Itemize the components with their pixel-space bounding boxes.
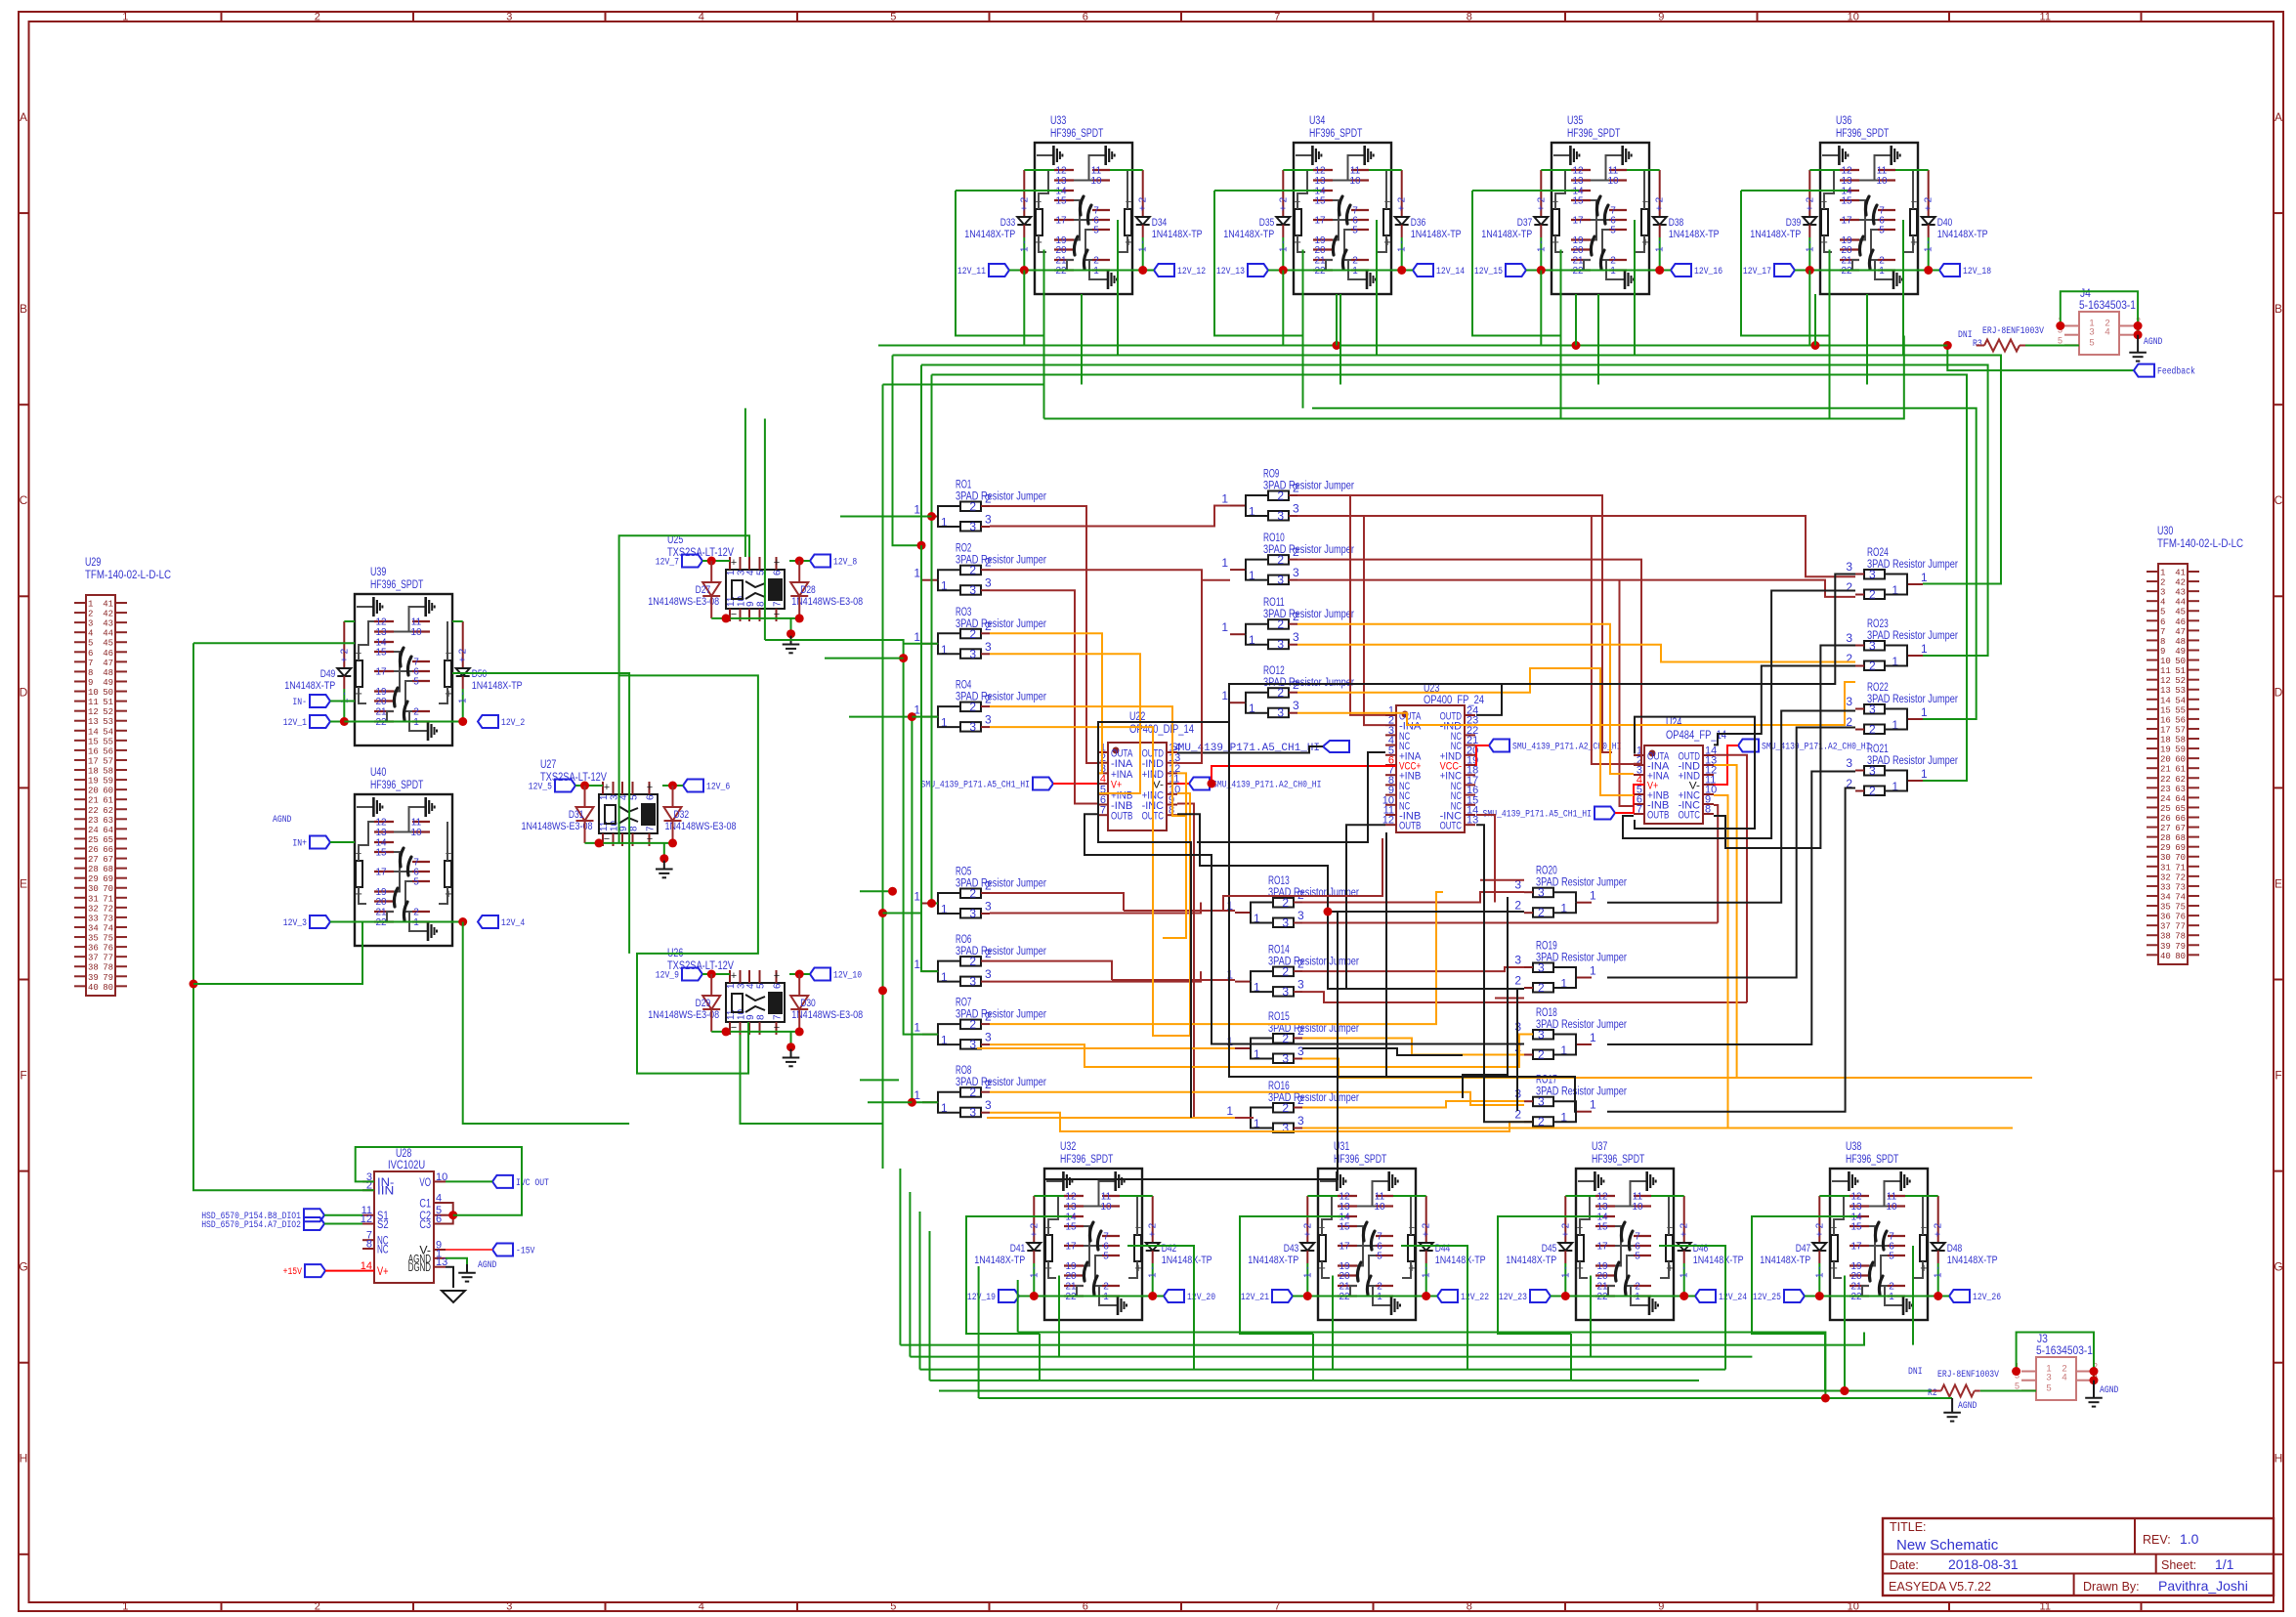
svg-text:12: 12 [1065,1192,1077,1203]
svg-text:16: 16 [2160,715,2171,725]
svg-text:47: 47 [2175,627,2186,637]
svg-text:1 -: 1 - [1934,1266,1944,1278]
svg-text:1: 1 [1921,705,1928,719]
wire relay p21 drop x1588 [1597,294,1599,385]
svg-text:RO18: RO18 [1536,1007,1557,1019]
svg-text:15: 15 [1596,1222,1608,1233]
svg-text:RO20: RO20 [1536,866,1557,877]
port 12V_4 [478,915,498,928]
port 12V_10 [810,968,830,981]
svg-text:39: 39 [2160,942,2171,952]
svg-text:1 -: 1 - [1679,1266,1690,1278]
wire trunk L6 [1044,336,1904,419]
svg-text:3: 3 [969,647,976,660]
svg-text:HF396_SPDT: HF396_SPDT [1846,1154,1898,1166]
wire U24 r12 drop [1714,765,1737,1078]
svg-text:3: 3 [1846,631,1852,645]
svg-text:28: 28 [2160,833,2171,843]
svg-text:13: 13 [1055,176,1067,187]
svg-text:D39: D39 [1786,217,1802,229]
svg-text:6: 6 [773,570,784,575]
wire trunk T1 [1018,1333,1826,1399]
svg-text:AGND: AGND [273,815,291,826]
svg-text:F: F [2275,1069,2281,1083]
wire 12V_19 row [1034,1296,1152,1298]
svg-text:2: 2 [969,1018,976,1032]
svg-text:TFM-140-02-L-D-LC: TFM-140-02-L-D-LC [85,570,171,581]
wire relay Dcol drop [1023,271,1025,346]
svg-text:21: 21 [88,796,99,806]
wire 12V_15 row [1541,270,1659,272]
wire relay pin20 drop x1059 [1043,250,1045,395]
port 12V_21 [1272,1290,1293,1302]
wire trunk L1 [878,345,1947,347]
svg-text:1N4148WS-E3-08: 1N4148WS-E3-08 [648,596,719,608]
wire U22 p12 drop [1163,773,1186,938]
svg-text:1: 1 [914,957,920,971]
svg-text:61: 61 [2175,765,2186,775]
wire relay pin14 feed x1588 [1472,190,1579,191]
wire U24 r10 drop [1714,795,1728,1128]
svg-text:U40: U40 [370,767,386,779]
wire RO11 p3 [1297,645,1855,662]
svg-text:43: 43 [2175,588,2186,598]
svg-text:D36: D36 [1411,217,1426,229]
svg-text:3: 3 [1846,695,1852,708]
svg-text:11: 11 [1633,1192,1643,1203]
svg-text:NC: NC [377,1245,389,1256]
svg-text:RO10: RO10 [1263,532,1285,544]
svg-text:2: 2 [1869,588,1876,602]
svg-text:17: 17 [1596,1242,1608,1253]
svg-text:12V_23: 12V_23 [1499,1293,1527,1303]
svg-text:4: 4 [2105,327,2109,338]
wire relay pin6 drop x1324 [1376,220,1378,356]
svg-text:U30: U30 [2157,526,2173,537]
wire brelay pin6 drop x1349 [1401,1246,1467,1370]
wire RO14 p3 [1302,992,1747,1002]
port 12V_24 [1695,1290,1716,1302]
wire black v1369 [1044,912,1338,1179]
svg-text:3: 3 [1282,1052,1289,1066]
svg-text:1N4148X-TP: 1N4148X-TP [1152,229,1203,240]
svg-text:D43: D43 [1284,1243,1299,1255]
svg-text:69: 69 [103,874,113,884]
svg-text:3: 3 [985,713,992,727]
wire RO10 p3 [1297,580,1855,597]
svg-text:H: H [2275,1452,2283,1466]
wire U23 feed2 [1364,516,1385,725]
svg-text:2: 2 [1869,723,1876,737]
wire RO3 feed [904,643,938,645]
wire U22 p9 web [1177,804,1254,1119]
svg-text:2: 2 [969,627,976,641]
wire U33 loop ext [1043,336,1045,419]
svg-text:+ 2: + 2 [1148,1222,1159,1237]
svg-text:5: 5 [413,677,419,688]
svg-text:2: 2 [2160,578,2165,588]
svg-text:1: 1 [726,570,737,575]
svg-text:2: 2 [1538,906,1545,919]
svg-text:2: 2 [1103,1282,1109,1293]
svg-text:1N4148X-TP: 1N4148X-TP [1435,1255,1486,1266]
wire V+ U22 [1053,783,1097,785]
wire brelay pin6 drop x1613 [1659,1246,1725,1370]
svg-text:D49: D49 [320,668,336,680]
svg-text:17: 17 [1339,1242,1350,1253]
svg-text:7: 7 [773,1014,784,1020]
svg-text:1N4148X-TP: 1N4148X-TP [964,229,1015,240]
port SMU A5 at U24 [1594,807,1615,820]
port 12V_18 [1939,264,1960,277]
svg-text:60: 60 [103,787,113,796]
svg-text:38: 38 [88,963,99,973]
svg-text:REV:: REV: [2143,1533,2171,1547]
diode D46 [1683,1196,1685,1243]
wire relay pin6 drop x1059 [1117,220,1119,356]
wire U23 r19 drop [1476,815,1495,903]
svg-text:21: 21 [1850,1282,1862,1293]
wire brelay pin20 drop x1349 [1332,1276,1334,1370]
wire U26 via [741,1035,883,1124]
svg-text:1 -: 1 - [1397,240,1408,252]
wire VO [446,1180,492,1182]
diode D38 [1659,170,1661,217]
svg-text:+: + [647,782,653,793]
svg-text:12V_11: 12V_11 [957,267,986,277]
wire relay pin20 drop x1588 [1560,250,1562,336]
wire RO9 p2 [1297,495,1612,752]
svg-text:15: 15 [1055,196,1067,207]
svg-text:12: 12 [1596,1192,1608,1203]
svg-text:3: 3 [1297,1044,1304,1058]
wire U24 r9 drop [1714,805,1718,923]
wire relay pin12 hook [1283,169,1313,171]
svg-text:3: 3 [1282,985,1289,999]
wire RO15 p3 [1302,1059,2032,1079]
svg-text:2: 2 [985,879,992,893]
svg-text:2: 2 [1297,1093,1304,1107]
svg-text:15: 15 [88,737,99,746]
svg-text:17: 17 [88,756,99,766]
svg-text:IIN: IIN [377,1186,394,1198]
svg-text:4: 4 [745,983,756,989]
ground T6 AGND [1951,1404,1953,1413]
resistor R3 [1977,345,1984,347]
svg-text:1 -: 1 - [1278,240,1289,252]
wire D28 stub [798,561,800,582]
wire D27 stub [710,561,712,582]
svg-text:79: 79 [103,973,113,983]
svg-text:EASYEDA V5.7.22: EASYEDA V5.7.22 [1889,1580,1991,1594]
svg-text:ERJ-8ENF1003V: ERJ-8ENF1003V [1982,326,2044,337]
wire relay pin6 drop x1863 [1902,220,1904,356]
svg-text:Pavithra_Joshi: Pavithra_Joshi [2158,1578,2248,1594]
wire RO5 feed left [860,890,893,892]
svg-text:17: 17 [375,667,387,678]
wire RO2 p3 [990,590,1097,803]
junction RO4 RO8 [908,712,916,721]
wire relay pin12 hook [1809,169,1840,171]
diode D47 [1818,1196,1820,1243]
svg-text:3: 3 [985,513,992,527]
svg-text:2: 2 [1277,553,1284,567]
wire relay p21 drop x1059 [1081,294,1083,385]
svg-text:+15V: +15V [283,1267,302,1278]
wire RO7 p3 [990,1035,1533,1068]
svg-text:11: 11 [1608,166,1619,177]
svg-text:U27: U27 [540,759,556,771]
wire U34 stub drop [1336,294,1338,346]
wire relay pin11 hook [1651,1195,1684,1197]
svg-text:E: E [20,876,27,890]
svg-text:10: 10 [1876,176,1888,187]
wire RO17 out [1607,788,1855,1112]
svg-text:A: A [2275,110,2282,124]
junction [1020,266,1029,275]
svg-text:2: 2 [1293,482,1299,495]
wire brelay loop x1349 [1240,1216,1345,1334]
port 12V_7 [682,555,702,568]
svg-text:1: 1 [1590,1098,1596,1112]
svg-text:73: 73 [103,914,113,923]
svg-text:15: 15 [375,648,387,659]
svg-text:C1: C1 [419,1199,431,1211]
svg-text:HF396_SPDT: HF396_SPDT [370,579,423,591]
port 12V_23 [1530,1290,1551,1302]
svg-text:1N4148X-TP: 1N4148X-TP [284,680,335,692]
svg-text:D33: D33 [1000,217,1016,229]
svg-text:12: 12 [375,818,387,829]
svg-text:60: 60 [2175,755,2186,765]
wire RO16 p3 [1302,1128,2013,1129]
ground U26 [790,1049,792,1058]
diode D31 [576,807,594,821]
wire U40 port row [355,921,463,923]
svg-text:5: 5 [2160,608,2165,617]
svg-text:U29: U29 [85,557,101,569]
svg-text:1N4148X-TP: 1N4148X-TP [1223,229,1274,240]
svg-text:4: 4 [699,1601,704,1613]
wire RO12 p2 [1297,668,1634,795]
svg-text:2: 2 [1277,489,1284,503]
svg-text:1/1: 1/1 [2215,1556,2234,1572]
svg-text:1N4148X-TP: 1N4148X-TP [1947,1255,1998,1266]
wire U25 via1 [744,408,746,557]
svg-text:16: 16 [88,746,99,756]
svg-text:71: 71 [2175,863,2186,872]
wire drop2 x1001 [978,1266,980,1398]
svg-text:32: 32 [88,904,99,914]
junction T5 [1840,1386,1849,1395]
svg-text:5: 5 [1093,226,1099,236]
svg-text:J3: J3 [2037,1334,2048,1345]
title block [1883,1518,2274,1596]
wire U24 outb [1623,591,1855,839]
svg-text:13: 13 [375,627,387,638]
wire RO7 left [860,1079,899,1081]
svg-text:2: 2 [1293,678,1299,692]
svg-text:12: 12 [2160,676,2171,686]
wire trunk T4b [930,1380,1700,1382]
diode D36 [1401,170,1403,217]
svg-text:RO2: RO2 [956,543,971,555]
diode D42 [1152,1196,1154,1243]
wire U25 pin4 hook [619,535,749,843]
svg-text:3: 3 [1282,916,1289,930]
svg-text:D45: D45 [1542,1243,1557,1255]
svg-text:26: 26 [2160,814,2171,824]
svg-text:1N4148WS-E3-08: 1N4148WS-E3-08 [522,821,593,832]
svg-text:56: 56 [2175,715,2186,725]
svg-text:DGND: DGND [408,1262,431,1274]
svg-text:+ 2: + 2 [1302,1222,1313,1237]
svg-text:12V_21: 12V_21 [1241,1293,1269,1303]
svg-text:U32: U32 [1060,1141,1076,1153]
wire black mid1 [1229,684,1502,722]
svg-text:3: 3 [969,1038,976,1051]
svg-text:11: 11 [1877,166,1888,177]
svg-text:12: 12 [1339,1192,1350,1203]
svg-text:67: 67 [2175,824,2186,833]
svg-text:29: 29 [88,874,99,884]
svg-text:2: 2 [1297,957,1304,971]
wire relay pin11 hook [1895,169,1929,171]
svg-text:+ 2: + 2 [1560,1222,1571,1237]
svg-text:Drawn By:: Drawn By: [2083,1580,2140,1594]
ground U28 DGND open [442,1291,465,1302]
svg-text:12V_5: 12V_5 [529,783,552,793]
svg-text:15: 15 [1065,1222,1077,1233]
svg-text:17: 17 [1055,216,1067,227]
svg-text:13: 13 [375,828,387,838]
svg-text:69: 69 [2175,843,2186,853]
svg-text:+ 2: + 2 [1805,196,1815,211]
svg-text:3: 3 [1869,568,1876,581]
wire RO13 black [1328,912,1524,989]
svg-text:35: 35 [88,934,99,944]
svg-text:7: 7 [1274,1601,1280,1613]
wire RO4 p3 [990,727,1190,1036]
svg-text:G: G [2274,1260,2282,1274]
svg-text:34: 34 [2160,892,2171,902]
svg-text:74: 74 [2175,892,2186,902]
svg-text:63: 63 [2175,785,2186,794]
svg-text:45: 45 [103,639,113,649]
svg-text:40: 40 [2160,952,2171,961]
wire relay pin12 hook [1565,1195,1595,1197]
svg-text:6: 6 [1083,12,1088,23]
svg-text:Date:: Date: [1890,1558,1919,1572]
svg-text:2: 2 [1514,899,1521,913]
svg-text:+ 2: + 2 [1934,1222,1944,1237]
svg-text:+ 2: + 2 [1138,196,1149,211]
wire U28 C bracket [434,1203,453,1224]
svg-text:33: 33 [2160,882,2171,892]
svg-text:3: 3 [969,720,976,734]
junction [1537,266,1546,275]
port 12V_9 [682,968,702,981]
svg-text:77: 77 [2175,922,2186,932]
svg-text:1N4148WS-E3-08: 1N4148WS-E3-08 [665,821,737,832]
wire 12V_23 row [1565,1296,1683,1298]
junction x923 [899,654,908,662]
svg-text:37: 37 [88,954,99,963]
svg-text:12: 12 [1572,166,1584,177]
svg-text:28: 28 [88,865,99,874]
svg-text:9: 9 [618,826,629,831]
wire RO10 p2 [1297,560,1641,764]
svg-text:70: 70 [103,884,113,894]
svg-text:49: 49 [103,678,113,688]
svg-text:11: 11 [411,617,422,628]
svg-text:31: 31 [2160,863,2171,872]
svg-text:27: 27 [2160,824,2171,833]
svg-text:20: 20 [1065,1271,1077,1282]
svg-text:2: 2 [413,707,419,718]
svg-text:1: 1 [1590,889,1596,903]
wire RO2 p2 [990,570,1230,580]
svg-text:12V_1: 12V_1 [283,718,307,729]
svg-text:5: 5 [756,983,767,989]
wire trunk L4 [883,384,1044,386]
wire D32 stub [672,786,674,807]
svg-text:D47: D47 [1796,1243,1811,1255]
wire relay pin12 hook [1024,169,1054,171]
wire brelay loop x1069 [966,1216,1072,1334]
svg-text:D40: D40 [1937,217,1953,229]
wire brelay pin6 drop x1069 [1127,1246,1194,1370]
wire U40 drop [463,922,629,1125]
svg-text:D35: D35 [1259,217,1275,229]
svg-text:3: 3 [1514,954,1521,967]
svg-text:U34: U34 [1309,115,1326,127]
wire RO8 left [868,1101,912,1103]
svg-text:17: 17 [375,868,387,878]
svg-text:46: 46 [103,649,113,659]
diode D39 [1808,170,1810,217]
svg-text:4: 4 [2062,1373,2066,1383]
svg-text:3: 3 [985,900,992,914]
svg-text:8: 8 [2160,637,2165,647]
svg-text:11: 11 [1350,166,1361,177]
wire 12V_11 row [1024,270,1142,272]
svg-text:D29: D29 [696,998,711,1009]
svg-text:64: 64 [103,826,113,835]
svg-text:9: 9 [2160,647,2165,657]
svg-text:9: 9 [1658,1601,1664,1613]
junction J3 [2012,1367,2020,1376]
svg-text:2: 2 [1293,610,1299,623]
svg-text:20: 20 [375,697,387,707]
svg-text:RO6: RO6 [956,934,971,946]
svg-text:2: 2 [1846,652,1852,665]
wire brelay mid drop x1349 [1312,1334,1314,1381]
wire relay pin11 hook [1369,169,1402,171]
wire U23 outb [1346,825,1385,989]
wire U36 drop ext [1829,336,1831,419]
svg-text:VO: VO [419,1177,431,1189]
port +15V [305,1264,325,1277]
svg-text:1 -: 1 - [1814,1266,1825,1278]
svg-text:10: 10 [1100,1202,1112,1213]
wire brelay pin6 drop x1873 [1912,1246,1914,1345]
svg-text:5: 5 [2089,337,2094,348]
svg-text:34: 34 [88,923,99,933]
svg-text:13: 13 [88,717,99,727]
svg-text:+ 2: + 2 [458,648,469,662]
svg-text:55: 55 [103,737,113,746]
